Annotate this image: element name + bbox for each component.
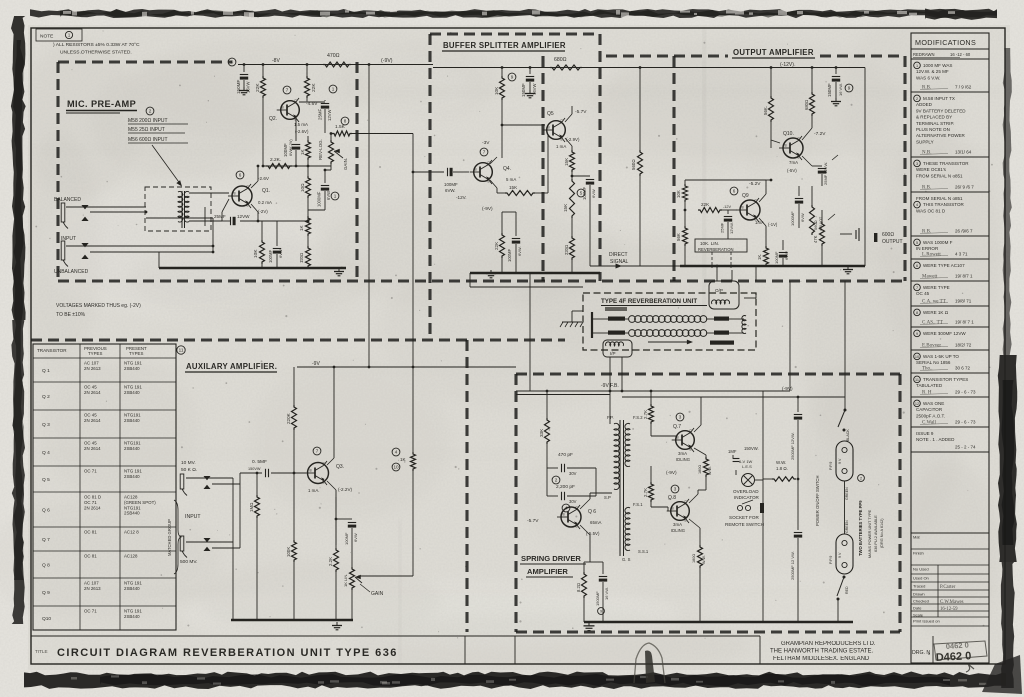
socket for remote switch	[737, 505, 742, 510]
svg-text:22K: 22K	[701, 202, 710, 207]
REV-LOG wiper arrow and GAIN label	[334, 151, 343, 158]
reverb spring line 1 right block	[714, 317, 729, 321]
transistor Q4	[474, 163, 493, 182]
resistor 56K output	[770, 68, 772, 97]
svg-text:(-2.6V): (-2.6V)	[295, 129, 309, 134]
svg-text:9 V: 9 V	[838, 458, 842, 464]
modifications entry 6	[914, 262, 921, 269]
svg-text:3: 3	[679, 415, 682, 420]
svg-text:-5.2V: -5.2V	[749, 181, 761, 187]
circled 2 batteries note	[858, 475, 865, 482]
svg-text:6VW: 6VW	[800, 213, 805, 222]
svg-text:(GREEN SPOT): (GREEN SPOT)	[124, 500, 156, 505]
svg-text:9: 9	[511, 75, 514, 80]
svg-text:(-2.2V): (-2.2V)	[338, 487, 353, 492]
section dashed border bottom y=281	[58, 279, 905, 282]
top supply rail -8V	[238, 64, 390, 66]
svg-text:NTG191: NTG191	[124, 441, 141, 446]
modifications entry 2	[914, 95, 921, 102]
svg-text:NTG191: NTG191	[124, 505, 141, 510]
resistor 22K vertical right	[306, 65, 308, 77]
svg-text:1K LIN.: 1K LIN.	[343, 574, 348, 587]
svg-text:OC 81: OC 81	[84, 530, 97, 535]
svg-text:11: 11	[179, 348, 184, 353]
output jack 600 ohm	[840, 233, 852, 235]
capacitor 1000MF 6VW output	[798, 186, 800, 196]
mic pre-amp dashed border left	[56, 62, 59, 281]
wire x=530 buffer to spring rail	[529, 281, 531, 391]
transformer T1 core	[181, 191, 183, 228]
svg-text:-9V F.B.: -9V F.B.	[601, 383, 619, 389]
resistor 15K Q5 emitter	[565, 138, 572, 146]
svg-text:6VW: 6VW	[353, 533, 358, 542]
svg-text:100K: 100K	[286, 547, 291, 557]
transistor Q7	[676, 431, 695, 450]
svg-text:100MF: 100MF	[344, 532, 349, 545]
svg-text:50 K Ω.: 50 K Ω.	[181, 467, 197, 473]
capacitor 100MF 6VW bottom left	[276, 221, 278, 246]
spring ground symbol	[588, 622, 590, 626]
svg-text:B: B	[677, 436, 679, 440]
reverb left transducer bar	[591, 312, 593, 338]
svg-text:6VW: 6VW	[278, 249, 283, 258]
svg-text:12VW: 12VW	[327, 110, 332, 121]
svg-text:636 PU-2 AVAILABLE: 636 PU-2 AVAILABLE	[874, 515, 878, 552]
svg-text:-5.7V: -5.7V	[575, 109, 587, 115]
circled 2 spring	[552, 476, 560, 484]
power switch contact top	[844, 409, 847, 412]
svg-text:-8V: -8V	[272, 58, 280, 64]
svg-text:10: 10	[393, 465, 399, 470]
svg-text:2SB440: 2SB440	[124, 366, 140, 371]
svg-text:REVERBERATION: REVERBERATION	[698, 247, 734, 252]
wire Q4 base node down / 15K horizontal	[505, 191, 535, 196]
svg-text:56K.: 56K.	[763, 106, 768, 115]
svg-text:Q.8: Q.8	[668, 495, 676, 501]
battery B1 PP9	[836, 441, 853, 481]
svg-text:100MF: 100MF	[507, 249, 512, 262]
circled 9 at C 150MF	[228, 58, 236, 66]
svg-text:PLUS NOTE ON: PLUS NOTE ON	[916, 127, 950, 132]
resistor 1K under Q2	[306, 140, 311, 160]
svg-text:OUTPUT: OUTPUT	[882, 239, 903, 245]
circled 1 near 1000MF	[331, 192, 339, 200]
svg-text:B: B	[672, 507, 674, 511]
svg-text:12: 12	[915, 402, 919, 406]
Q6 emitter down	[580, 525, 590, 535]
svg-text:(-9V): (-9V)	[381, 58, 393, 64]
overload wires	[735, 470, 737, 475]
svg-text:UNBALANCED: UNBALANCED	[54, 269, 89, 275]
svg-text:30V: 30V	[569, 471, 577, 476]
svg-text:NTG 191: NTG 191	[124, 385, 142, 390]
svg-text:470Ω: 470Ω	[327, 53, 340, 59]
svg-text:E: E	[488, 180, 490, 184]
svg-text:Drawn: Drawn	[913, 592, 925, 597]
svg-text:BUFFER SPLITTER AMPLIFIER: BUFFER SPLITTER AMPLIFIER	[443, 41, 566, 50]
wire Q9 emitter	[759, 218, 766, 226]
svg-text:Q 9: Q 9	[42, 590, 50, 596]
circled 6 at Q1	[236, 171, 244, 179]
note box	[36, 29, 82, 41]
svg-text:(-9V): (-9V)	[782, 386, 793, 392]
svg-text:OC 45: OC 45	[916, 291, 930, 296]
svg-text:100MF: 100MF	[283, 143, 288, 157]
svg-text:2500MF 12 VW.: 2500MF 12 VW.	[790, 551, 795, 580]
reverb I/P coil box	[603, 340, 632, 357]
circled 9 buffer cap	[508, 73, 516, 81]
buffer ground	[490, 270, 492, 274]
svg-text:-3V: -3V	[482, 140, 490, 146]
svg-text:7 / 9 /62: 7 / 9 /62	[955, 85, 972, 90]
svg-text:M56 600Ω INPUT: M56 600Ω INPUT	[128, 137, 168, 143]
svg-text:5: 5	[916, 241, 918, 245]
resistor 560Ω direct-signal	[639, 68, 641, 151]
svg-text:2SB440: 2SB440	[124, 390, 140, 395]
svg-text:3: 3	[916, 162, 918, 166]
svg-text:SIGNAL: SIGNAL	[610, 259, 629, 265]
transistor Q3	[308, 463, 329, 484]
svg-text:E: E	[323, 481, 325, 485]
buffer top rail	[433, 67, 606, 69]
Q6 collector wire to transformer	[580, 499, 590, 509]
wire REV-LOG bottom to cap	[325, 169, 331, 171]
svg-text:Print Issued on: Print Issued on	[913, 619, 940, 624]
svg-text:FELTHAM MIDDLESEX. ENGLAND: FELTHAM MIDDLESEX. ENGLAND	[773, 656, 870, 662]
svg-text:WAS OC 81 D: WAS OC 81 D	[916, 208, 946, 213]
buffer section dashed border left	[428, 34, 431, 340]
ground symbol mic rail	[338, 268, 340, 272]
svg-text:OC 81: OC 81	[84, 554, 97, 559]
svg-text:OVERLOAD: OVERLOAD	[733, 489, 759, 494]
scanner streaks	[380, 88, 1020, 96]
svg-text:AC128: AC128	[124, 554, 138, 559]
svg-text:VOLTAGES MARKED THUS eg. (-: VOLTAGES MARKED THUS eg. (-2V)	[56, 303, 141, 309]
svg-text:25 - 2 - 74: 25 - 2 - 74	[955, 445, 976, 450]
capacitor 150MF 16VW with ground	[243, 65, 245, 73]
svg-text:(-9V): (-9V)	[482, 206, 493, 212]
driver transformer primary winding	[614, 423, 619, 489]
svg-text:INPUT: INPUT	[185, 514, 201, 520]
transformer wires	[613, 424, 615, 493]
svg-text:500 MV.: 500 MV.	[180, 559, 197, 565]
svg-text:Q9: Q9	[742, 193, 749, 199]
svg-text:29 - 6 - 73: 29 - 6 - 73	[955, 390, 976, 395]
svg-text:10 MV.: 10 MV.	[181, 460, 196, 466]
svg-text:22K: 22K	[255, 83, 261, 92]
title strip divider x=465	[464, 636, 466, 664]
svg-text:TRANSISTOR TYPES: TRANSISTOR TYPES	[923, 377, 968, 382]
Q7 collector/emitter wires	[694, 425, 701, 432]
dashed stubs from reverberation pot to reverb unit	[711, 252, 713, 268]
svg-text:2N 2614: 2N 2614	[84, 418, 101, 423]
svg-text:-5.7V: -5.7V	[527, 518, 539, 524]
svg-text:OC 45: OC 45	[84, 385, 97, 390]
reverb O/P wires up	[716, 266, 718, 281]
-9V FB rail	[516, 390, 790, 392]
pointer arrow from labels to transformer T1	[152, 145, 181, 185]
svg-text:150VW: 150VW	[248, 467, 261, 471]
svg-text:6VW: 6VW	[591, 189, 596, 198]
aux coupling capacitor 0.5MF 150VW	[240, 472, 262, 474]
transformer T1 secondary winding	[184, 191, 189, 222]
svg-text:IN ERROR: IN ERROR	[916, 246, 939, 251]
resistor 56K output lower-left	[684, 210, 686, 226]
resistor 47K output	[821, 210, 823, 222]
svg-text:P.P.9: P.P.9	[829, 462, 833, 470]
svg-text:100MF: 100MF	[444, 182, 458, 187]
svg-text:6VW: 6VW	[326, 191, 331, 200]
svg-text:3mA: 3mA	[673, 522, 682, 527]
svg-text:GAIN: GAIN	[371, 591, 384, 597]
transistor Q6	[561, 507, 581, 527]
svg-text:RED: RED	[845, 586, 849, 594]
spring section dashed border left	[514, 374, 517, 632]
transistor Q10	[783, 138, 803, 158]
svg-text:AMPLIFIER: AMPLIFIER	[527, 567, 568, 576]
svg-text:Used On: Used On	[913, 576, 929, 581]
svg-text:3mA: 3mA	[678, 451, 687, 456]
chassis ground left of reverb	[572, 310, 583, 312]
aux pot wiper wire to x=413	[358, 575, 413, 577]
svg-text:2: 2	[860, 477, 862, 481]
svg-text:TRANSISTOR: TRANSISTOR	[37, 348, 67, 353]
svg-text:NTG 191: NTG 191	[124, 581, 142, 586]
output section dashed border top	[606, 54, 728, 57]
svg-text:10K: 10K	[494, 86, 499, 95]
svg-text:19/8/ 71: 19/8/ 71	[955, 299, 972, 304]
svg-text:L.E.S: L.E.S	[742, 464, 752, 469]
capacitor 150MF 16VW buffer	[529, 68, 531, 75]
svg-text:TO BE ±10%: TO BE ±10%	[56, 312, 86, 318]
svg-text:SPRING DRIVER: SPRING DRIVER	[521, 554, 581, 563]
svg-text:5: 5	[580, 191, 583, 196]
drg number row	[911, 636, 989, 638]
transistor Q2	[281, 101, 300, 120]
svg-text:N.B.: N.B.	[922, 151, 931, 156]
svg-text:UNLESS OTHERWISE STATED.: UNLESS OTHERWISE STATED.	[60, 50, 132, 56]
svg-text:C.Wall: C.Wall	[922, 421, 937, 426]
svg-text:7: 7	[286, 88, 289, 93]
wire 22K left down to Q1 region	[262, 98, 264, 166]
buffer section dashed border top	[430, 32, 600, 35]
svg-text:Mawett: Mawett	[922, 275, 938, 280]
svg-text:Tho..: Tho..	[922, 367, 933, 372]
svg-text:NTG 191: NTG 191	[124, 361, 142, 366]
svg-text:-9V: -9V	[312, 361, 320, 367]
ink artifact bottom centre	[634, 643, 665, 683]
svg-text:2SB440: 2SB440	[124, 418, 140, 423]
svg-text:POWER ON/OFF SWITCH: POWER ON/OFF SWITCH	[815, 476, 820, 526]
driver transformer FS2 winding	[625, 423, 630, 466]
svg-text:1K: 1K	[400, 457, 407, 462]
modifications entry 10	[914, 353, 921, 360]
svg-text:REMOTE SWITCH: REMOTE SWITCH	[725, 522, 764, 527]
svg-text:Finish: Finish	[913, 551, 924, 556]
svg-text:NTG191: NTG191	[124, 413, 141, 418]
svg-text:0.2 mA: 0.2 mA	[258, 200, 272, 205]
svg-text:470 pF: 470 pF	[558, 452, 573, 458]
aux input wires	[186, 477, 233, 479]
capacitor 100MF 6VW input to Q4	[447, 168, 449, 176]
svg-text:1000 MF WAS: 1000 MF WAS	[923, 63, 952, 68]
resistor 180Ω WW lower	[698, 545, 703, 568]
power rail y=397	[622, 396, 845, 398]
svg-text:WERE TYPE: WERE TYPE	[923, 285, 950, 290]
svg-text:10K: 10K	[253, 249, 259, 258]
output top rail -12V	[606, 67, 865, 69]
Q7 base wire	[651, 435, 676, 437]
resistor 680Ω horizontal buffer	[550, 65, 582, 70]
svg-text:9 V: 9 V	[838, 552, 842, 558]
svg-text:2SB440: 2SB440	[124, 474, 140, 479]
svg-text:2: 2	[555, 478, 558, 483]
svg-text:OC 45: OC 45	[84, 441, 97, 446]
svg-text:DIRECT: DIRECT	[609, 252, 628, 258]
wire Q5 collector	[565, 114, 572, 122]
spring section dashed bottom	[516, 630, 900, 633]
aux jack 1	[180, 474, 184, 489]
svg-text:P.Carter: P.Carter	[940, 585, 956, 590]
modifications entry 12	[914, 400, 921, 407]
svg-text:GREEN: GREEN	[845, 487, 849, 500]
svg-text:16VW: 16VW	[532, 84, 537, 95]
grampian address box	[759, 636, 761, 664]
svg-text:150MF: 150MF	[236, 80, 241, 94]
modifications entry 3	[914, 160, 921, 167]
svg-text:C.AS.. TT: C.AS.. TT	[922, 321, 943, 326]
svg-text:THIS TRANSISTOR: THIS TRANSISTOR	[923, 202, 964, 207]
svg-text:2N 2613: 2N 2613	[84, 366, 101, 371]
svg-text:Q 1: Q 1	[42, 368, 50, 374]
svg-text:REV-LOG.: REV-LOG.	[318, 139, 323, 160]
svg-text:B: B	[282, 106, 284, 110]
svg-text:IDLING: IDLING	[671, 528, 685, 533]
svg-text:TWO BATTERIES TYPE PP9: TWO BATTERIES TYPE PP9	[858, 500, 863, 556]
transformer T1 dashed box	[145, 187, 211, 231]
svg-text:O/P: O/P	[715, 288, 723, 293]
bright paper patches	[180, 580, 680, 650]
svg-text:E.Bovver: E.Bovver	[922, 344, 941, 349]
transformer T1 primary winding	[178, 191, 183, 222]
reverb spring coil 1	[629, 316, 636, 323]
scan smudge bottom right corner	[982, 655, 1022, 694]
wire from mic output x=413 to Q4 input	[413, 171, 444, 173]
fold creases	[703, 28, 706, 328]
reverb arrow	[648, 341, 690, 343]
REV-LOG potentiometer	[329, 140, 334, 164]
svg-text:TITLE: TITLE	[35, 649, 48, 654]
transistor Q9	[740, 200, 760, 220]
resistor 8.2Ω spring	[584, 561, 590, 563]
wire 1.5K output to right and down x=413	[352, 133, 413, 135]
pot 10K LIN REVERBERATION box	[695, 239, 747, 252]
svg-text:TYPES: TYPES	[88, 351, 102, 356]
svg-text:WAS 1-5K UP TO: WAS 1-5K UP TO	[923, 354, 959, 359]
svg-text:Q10.: Q10.	[783, 131, 794, 137]
svg-text:R. H: R. H	[922, 391, 932, 396]
wire Q4 collector up	[490, 157, 497, 164]
resistor 33K spring	[546, 391, 548, 418]
svg-text:1: 1	[916, 64, 918, 68]
modifications table outer box	[911, 33, 989, 663]
resistor 120Ω vertical	[306, 246, 311, 268]
svg-text:19/ 8/ 7 1: 19/ 8/ 7 1	[955, 320, 974, 325]
reverb spring line 1 left block	[608, 317, 625, 321]
svg-text:F.S.1: F.S.1	[633, 502, 643, 507]
svg-text:L.Rowett: L.Rowett	[922, 253, 941, 258]
modifications entry 8	[914, 309, 921, 316]
svg-text:2SB440: 2SB440	[124, 446, 140, 451]
svg-text:C.A. we TT: C.A. we TT	[922, 300, 946, 305]
modifications entry 5	[914, 239, 921, 246]
Q3 collector wire	[327, 458, 334, 465]
resistor 180Ω WW upper	[705, 455, 707, 457]
svg-text:-12V.: -12V.	[456, 195, 467, 200]
svg-text:-7.2V: -7.2V	[814, 131, 826, 137]
svg-text:D462 0: D462 0	[936, 650, 972, 664]
svg-text:6: 6	[239, 173, 242, 178]
battery interconnect wire	[844, 481, 846, 534]
svg-text:4 3 71: 4 3 71	[955, 252, 968, 257]
resistor 1.5K horizontal	[332, 131, 352, 136]
wire 1000MF bottom to emitter node	[308, 209, 325, 211]
svg-text:MODIFICATIONS: MODIFICATIONS	[915, 38, 976, 47]
wire emitter row to 1K	[277, 220, 308, 222]
svg-text:7mA: 7mA	[789, 160, 798, 165]
svg-text:No Used: No Used	[913, 567, 929, 572]
resistor 22K vertical left	[262, 65, 264, 77]
capacitor 25MF 12VW at Q2 collector	[324, 100, 326, 101]
power switch contact bottom	[843, 576, 846, 579]
scan smudge right edge lower	[998, 355, 1017, 562]
svg-text:26 /9/6 7: 26 /9/6 7	[955, 229, 973, 234]
circled 4 and 10 near 1K	[392, 448, 400, 456]
aux section dashed border right	[465, 340, 468, 632]
svg-text:7: 7	[916, 286, 918, 290]
battery feed wire x=845	[844, 281, 846, 410]
Q8 base wire	[651, 506, 668, 508]
svg-text:2.7K: 2.7K	[643, 488, 648, 497]
aux 100MF 6VW capacitor	[336, 518, 352, 520]
svg-text:1K: 1K	[300, 148, 305, 155]
svg-text:29 - 6 - 73: 29 - 6 - 73	[955, 420, 976, 425]
svg-text:2SB440: 2SB440	[124, 511, 140, 516]
modifications entry 9	[914, 330, 921, 337]
wire Q5 base from Q4 collector node	[502, 124, 545, 126]
svg-text:E: E	[798, 156, 800, 160]
svg-text:Q 8: Q 8	[42, 563, 50, 569]
svg-text:B: B	[234, 192, 236, 196]
svg-text:2.7K: 2.7K	[643, 410, 648, 419]
capacitor 25MF 12VW at Q9 base	[693, 209, 698, 211]
capacitor 150MF 16VW output	[835, 68, 837, 75]
wires transformer to Q1 base	[189, 192, 229, 194]
resistor 1K output	[765, 239, 767, 246]
buffer section dashed border right x=543	[541, 56, 544, 281]
svg-text:9: 9	[600, 610, 602, 614]
circled 1 near 25MF	[329, 85, 337, 93]
svg-text:(DRG No A 6142): (DRG No A 6142)	[880, 518, 884, 548]
Q3 base junction	[293, 472, 296, 475]
svg-text:(-1V): (-1V)	[768, 222, 778, 227]
long wire x=369 from top rail down to aux rail	[368, 65, 370, 368]
svg-text:2500MF 12VW.: 2500MF 12VW.	[790, 432, 795, 460]
svg-text:Q 3: Q 3	[42, 422, 50, 428]
svg-text:22K: 22K	[494, 241, 499, 250]
svg-text:4: 4	[395, 450, 398, 455]
svg-text:Q 7: Q 7	[42, 537, 50, 543]
